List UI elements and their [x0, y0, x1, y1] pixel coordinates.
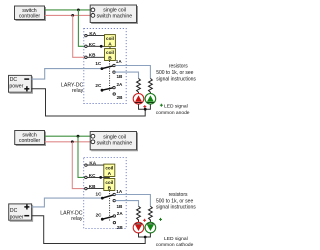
coil B [105, 49, 116, 62]
single coil switch machine box [90, 5, 137, 24]
wire DC plus to 1C [32, 198, 103, 207]
wire red controller to switch machine [45, 141, 91, 143]
svg-text:2A: 2A [117, 211, 124, 216]
DC power box [9, 204, 33, 221]
svg-text:coil: coil [105, 166, 113, 171]
node junction green [77, 9, 80, 12]
svg-text:power: power [10, 215, 24, 221]
wire KA to coil A [87, 35, 105, 37]
coil B [104, 179, 115, 192]
node coil junction [100, 45, 103, 48]
resistor R-green [149, 78, 153, 93]
svg-text:common anode: common anode [156, 110, 190, 116]
svg-text:controller: controller [19, 138, 41, 144]
wire 1B to red resistor [115, 72, 138, 78]
wire green controller to switch machine [45, 9, 91, 11]
svg-text:LED signal: LED signal [164, 104, 188, 110]
contact arm 1 [102, 195, 113, 198]
node junction red [71, 140, 74, 143]
svg-text:LED signal: LED signal [164, 236, 188, 242]
green polarity plus [159, 218, 162, 221]
LED red (anode bottom, apex up) [133, 94, 144, 105]
svg-text:DC: DC [10, 77, 18, 83]
svg-text:2B: 2B [117, 225, 124, 230]
svg-text:controller: controller [19, 13, 41, 19]
svg-text:2C: 2C [96, 212, 103, 217]
contact arm 2 [102, 88, 113, 90]
resistor R-green [149, 206, 153, 222]
svg-text:coil: coil [105, 180, 113, 185]
node junction green [77, 135, 80, 138]
svg-text:B: B [108, 55, 112, 61]
contact arm 1 [102, 66, 113, 69]
node LED common junction [144, 108, 147, 111]
LARY-DC relay dotted box [84, 158, 127, 229]
wire LED leads to common bar [139, 233, 151, 237]
wire KC to coil junction [87, 45, 110, 47]
svg-text:1C: 1C [95, 61, 102, 66]
svg-text:1B: 1B [117, 204, 124, 209]
svg-text:switch machine: switch machine [97, 140, 133, 146]
LARY-DC relay dotted box [84, 29, 126, 104]
pin 1B [113, 71, 123, 79]
svg-text:coil: coil [106, 50, 114, 55]
wire green drop to KC [78, 136, 86, 177]
svg-text:A: A [108, 41, 112, 47]
svg-text:KA: KA [89, 160, 96, 165]
pin KB [85, 53, 96, 59]
svg-text:B: B [108, 185, 112, 191]
wire red drop to KB [73, 15, 86, 57]
svg-text:A: A [108, 171, 112, 177]
wire 1B to red resistor [115, 201, 138, 207]
wire KC to coil junction [87, 176, 109, 178]
svg-text:resistors: resistors [169, 192, 188, 198]
node junction red [71, 14, 74, 17]
LED green (anode bottom, apex up) [145, 94, 156, 105]
wire red controller to switch machine [45, 14, 91, 16]
red polarity plus [143, 105, 146, 108]
green polarity plus [160, 104, 163, 107]
contact 2C common [96, 212, 104, 220]
svg-text:coil: coil [106, 36, 114, 41]
relay linkage dashed [109, 61, 111, 92]
svg-text:1B: 1B [117, 74, 124, 79]
svg-text:signal instructions: signal instructions [156, 205, 196, 211]
LED red (cathode bottom circuit, apex down) [133, 222, 144, 233]
pin 2B [113, 93, 123, 100]
contact 2C common [95, 83, 103, 92]
switch controller box [15, 131, 46, 146]
contact 1C common [96, 192, 104, 200]
pin KA [85, 31, 97, 37]
pin KC [85, 173, 96, 179]
relay linkage dashed [109, 191, 111, 222]
wire green controller to switch machine [45, 135, 91, 137]
wire green drop to KC [78, 10, 86, 46]
pin 2A [113, 211, 123, 217]
svg-text:2C: 2C [95, 83, 102, 88]
contact 1C common [95, 61, 103, 70]
wire red drop to KB [72, 142, 86, 189]
svg-text:DC: DC [10, 208, 18, 214]
resistor R-red [137, 206, 141, 222]
contact arm 2 [102, 216, 113, 219]
wire KB to coil B [87, 188, 104, 190]
wire DC minus to 1C [31, 69, 102, 80]
pin 1A [113, 189, 123, 196]
svg-text:500 to 1k, or see: 500 to 1k, or see [156, 70, 193, 76]
wire 1A to green resistor [115, 195, 150, 207]
wire LED leads to common bar [139, 104, 151, 109]
svg-text:relay: relay [71, 216, 83, 222]
svg-text:1C: 1C [96, 192, 103, 197]
DC power box [9, 75, 33, 93]
svg-text:power: power [9, 84, 23, 90]
wire KB to coil B [87, 56, 105, 58]
svg-text:1A: 1A [116, 59, 123, 64]
red polarity plus [143, 219, 146, 222]
coil A [104, 164, 115, 177]
node LED common junction [144, 236, 147, 239]
resistor R-red [137, 78, 141, 93]
svg-text:signal instructions: signal instructions [156, 76, 196, 82]
svg-text:2A: 2A [117, 82, 124, 87]
wire DC plus to LED common anode [31, 89, 145, 116]
svg-text:relay: relay [72, 88, 84, 94]
switch controller box [15, 6, 46, 21]
pin KC [85, 42, 96, 48]
pin KA [85, 160, 97, 166]
node coil junction [99, 176, 102, 179]
wire DC minus to LED common cathode [32, 216, 146, 244]
svg-text:1A: 1A [116, 189, 123, 194]
svg-text:switch machine: switch machine [97, 14, 133, 20]
pin KB [85, 184, 96, 190]
svg-text:common cathode: common cathode [156, 242, 194, 248]
pin 2A [113, 82, 123, 89]
pin 1B [113, 199, 123, 208]
svg-text:resistors: resistors [169, 63, 188, 69]
svg-text:2B: 2B [117, 95, 124, 100]
pin 2B [113, 221, 123, 229]
coil A [105, 35, 116, 48]
wire 1A to green resistor [115, 66, 150, 79]
LED green (cathode bottom circuit, apex down) [145, 222, 156, 233]
pin 1A [113, 59, 123, 67]
wire KA to coil A [87, 164, 104, 166]
single coil switch machine box [90, 132, 137, 151]
